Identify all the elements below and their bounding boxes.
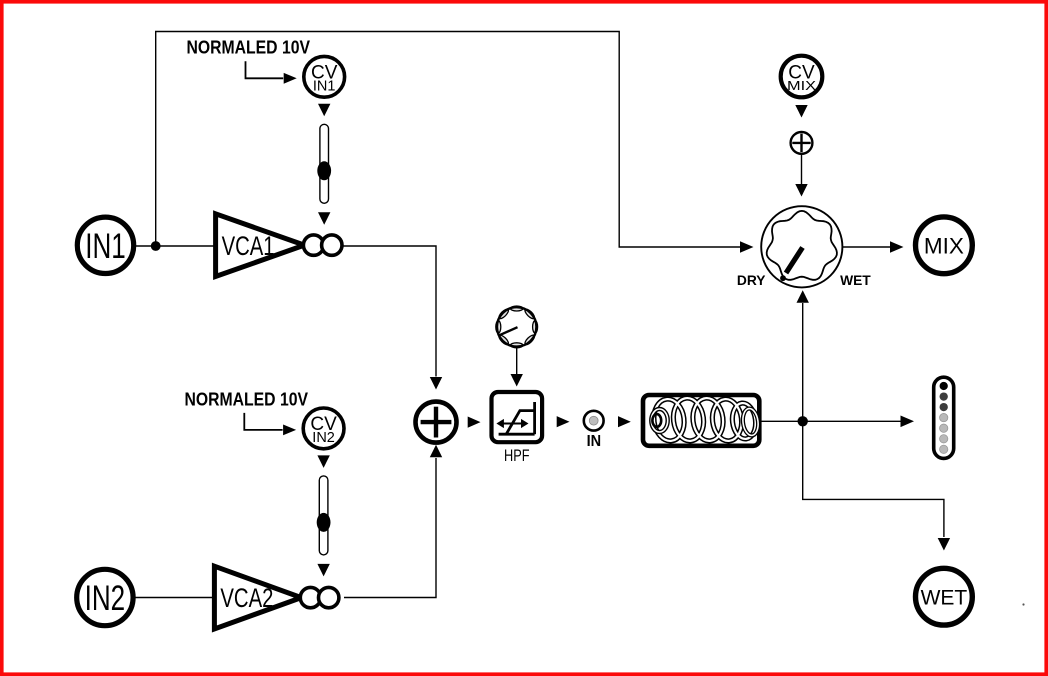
arrowhead CV to attenuator slider (318, 104, 330, 117)
slider handle (317, 513, 331, 532)
meter LED 6 (940, 435, 948, 443)
VCA2 output ring circles (300, 587, 320, 607)
input jack IN1 (77, 217, 133, 273)
spring reverb tank box (643, 395, 759, 446)
attenuator slider track (320, 124, 329, 203)
tank IN jack (584, 411, 604, 431)
spring coil (652, 397, 687, 442)
arrowhead into WET jack (938, 538, 950, 551)
arrowhead CV to attenuator slider (317, 455, 329, 468)
wire junction to top rail (156, 32, 741, 248)
summing node + (416, 402, 457, 443)
VCA1 output ring circles (303, 235, 323, 255)
wire junction down to WET output (803, 421, 944, 537)
arrowhead summer to HPF (468, 417, 481, 428)
CV MIX jack (781, 56, 823, 98)
wire junction to level meter (803, 420, 901, 422)
svg-text:MIX: MIX (787, 78, 816, 93)
HPF filter block (492, 392, 543, 442)
wire IN1 to VCA1 (134, 245, 216, 247)
input jack IN2 (77, 569, 133, 625)
wire CV MIX adder down to knob (801, 155, 803, 185)
node junction dot after tank (798, 416, 808, 426)
wire small knob to HPF (516, 348, 518, 375)
meter LED 3 (940, 403, 948, 411)
svg-text:IN: IN (587, 433, 602, 450)
HPF cutoff knob (497, 307, 536, 346)
knob pointer line (786, 248, 803, 274)
wire spring tank to junction (761, 420, 803, 422)
CV adder circle + (791, 132, 813, 154)
elbow arrow into CV IN1 jack (246, 61, 284, 78)
knob pointer dot (780, 275, 786, 281)
svg-text:VCA2: VCA2 (220, 583, 273, 613)
meter LED 1 (940, 382, 948, 390)
amplifier VCA1 triangle (216, 214, 305, 277)
output jack WET (916, 568, 973, 625)
arrowhead HPF to tank IN (557, 416, 570, 427)
crossfade DRY/WET knob outer (761, 206, 842, 287)
wire VCA1 output to summer (341, 246, 436, 377)
knob wavy grip (767, 211, 837, 280)
HPF response icon (499, 433, 535, 436)
elbow arrow into CV IN2 jack (244, 413, 282, 430)
svg-text:WET: WET (840, 273, 871, 288)
meter LED 2 (940, 392, 948, 400)
stray dot artifact (1022, 603, 1024, 605)
svg-text:NORMALED 10V: NORMALED 10V (187, 38, 311, 58)
svg-text:NORMALED 10V: NORMALED 10V (185, 390, 309, 410)
wire junction up to crossfade knob (802, 303, 804, 421)
wire IN2 to VCA2 (134, 597, 215, 599)
svg-text:IN1: IN1 (313, 78, 336, 94)
HPF cutoff double arrow (501, 423, 524, 425)
arrowhead into summer bottom (430, 445, 442, 458)
svg-text:IN2: IN2 (85, 579, 126, 618)
arrowhead into summer top (430, 377, 442, 390)
meter LED 5 (940, 424, 948, 432)
amplifier VCA2 triangle (214, 566, 301, 629)
arrowhead wet wire into knob bottom (797, 290, 809, 303)
CV IN1 jack circle (304, 56, 345, 97)
wire VCA2 output to summer (344, 458, 436, 598)
CV IN2 jack circle (303, 408, 344, 449)
svg-text:WET: WET (921, 587, 968, 610)
node junction dot at IN1 (151, 241, 161, 251)
arrowhead slider to VCA (318, 212, 330, 225)
svg-text:IN1: IN1 (85, 227, 126, 266)
svg-text:IN2: IN2 (312, 430, 335, 446)
svg-text:DRY: DRY (737, 273, 766, 288)
output jack MIX (916, 217, 973, 274)
meter LED 4 (940, 413, 948, 421)
arrowhead CV MIX to adder (795, 105, 807, 118)
svg-text:VCA1: VCA1 (222, 231, 275, 261)
arrowhead IN to spring tank (618, 416, 631, 427)
attenuator slider track (319, 476, 328, 555)
meter LED 7 (940, 445, 948, 453)
wire crossfade knob to MIX jack (842, 246, 890, 248)
arrowhead dry wire into crossfade knob (740, 241, 754, 253)
knob pointer (500, 327, 518, 335)
LED level meter (934, 377, 954, 458)
svg-text:HPF: HPF (504, 447, 530, 465)
arrowhead slider to VCA (317, 564, 329, 577)
slider handle (317, 161, 331, 180)
svg-text:MIX: MIX (924, 233, 964, 258)
